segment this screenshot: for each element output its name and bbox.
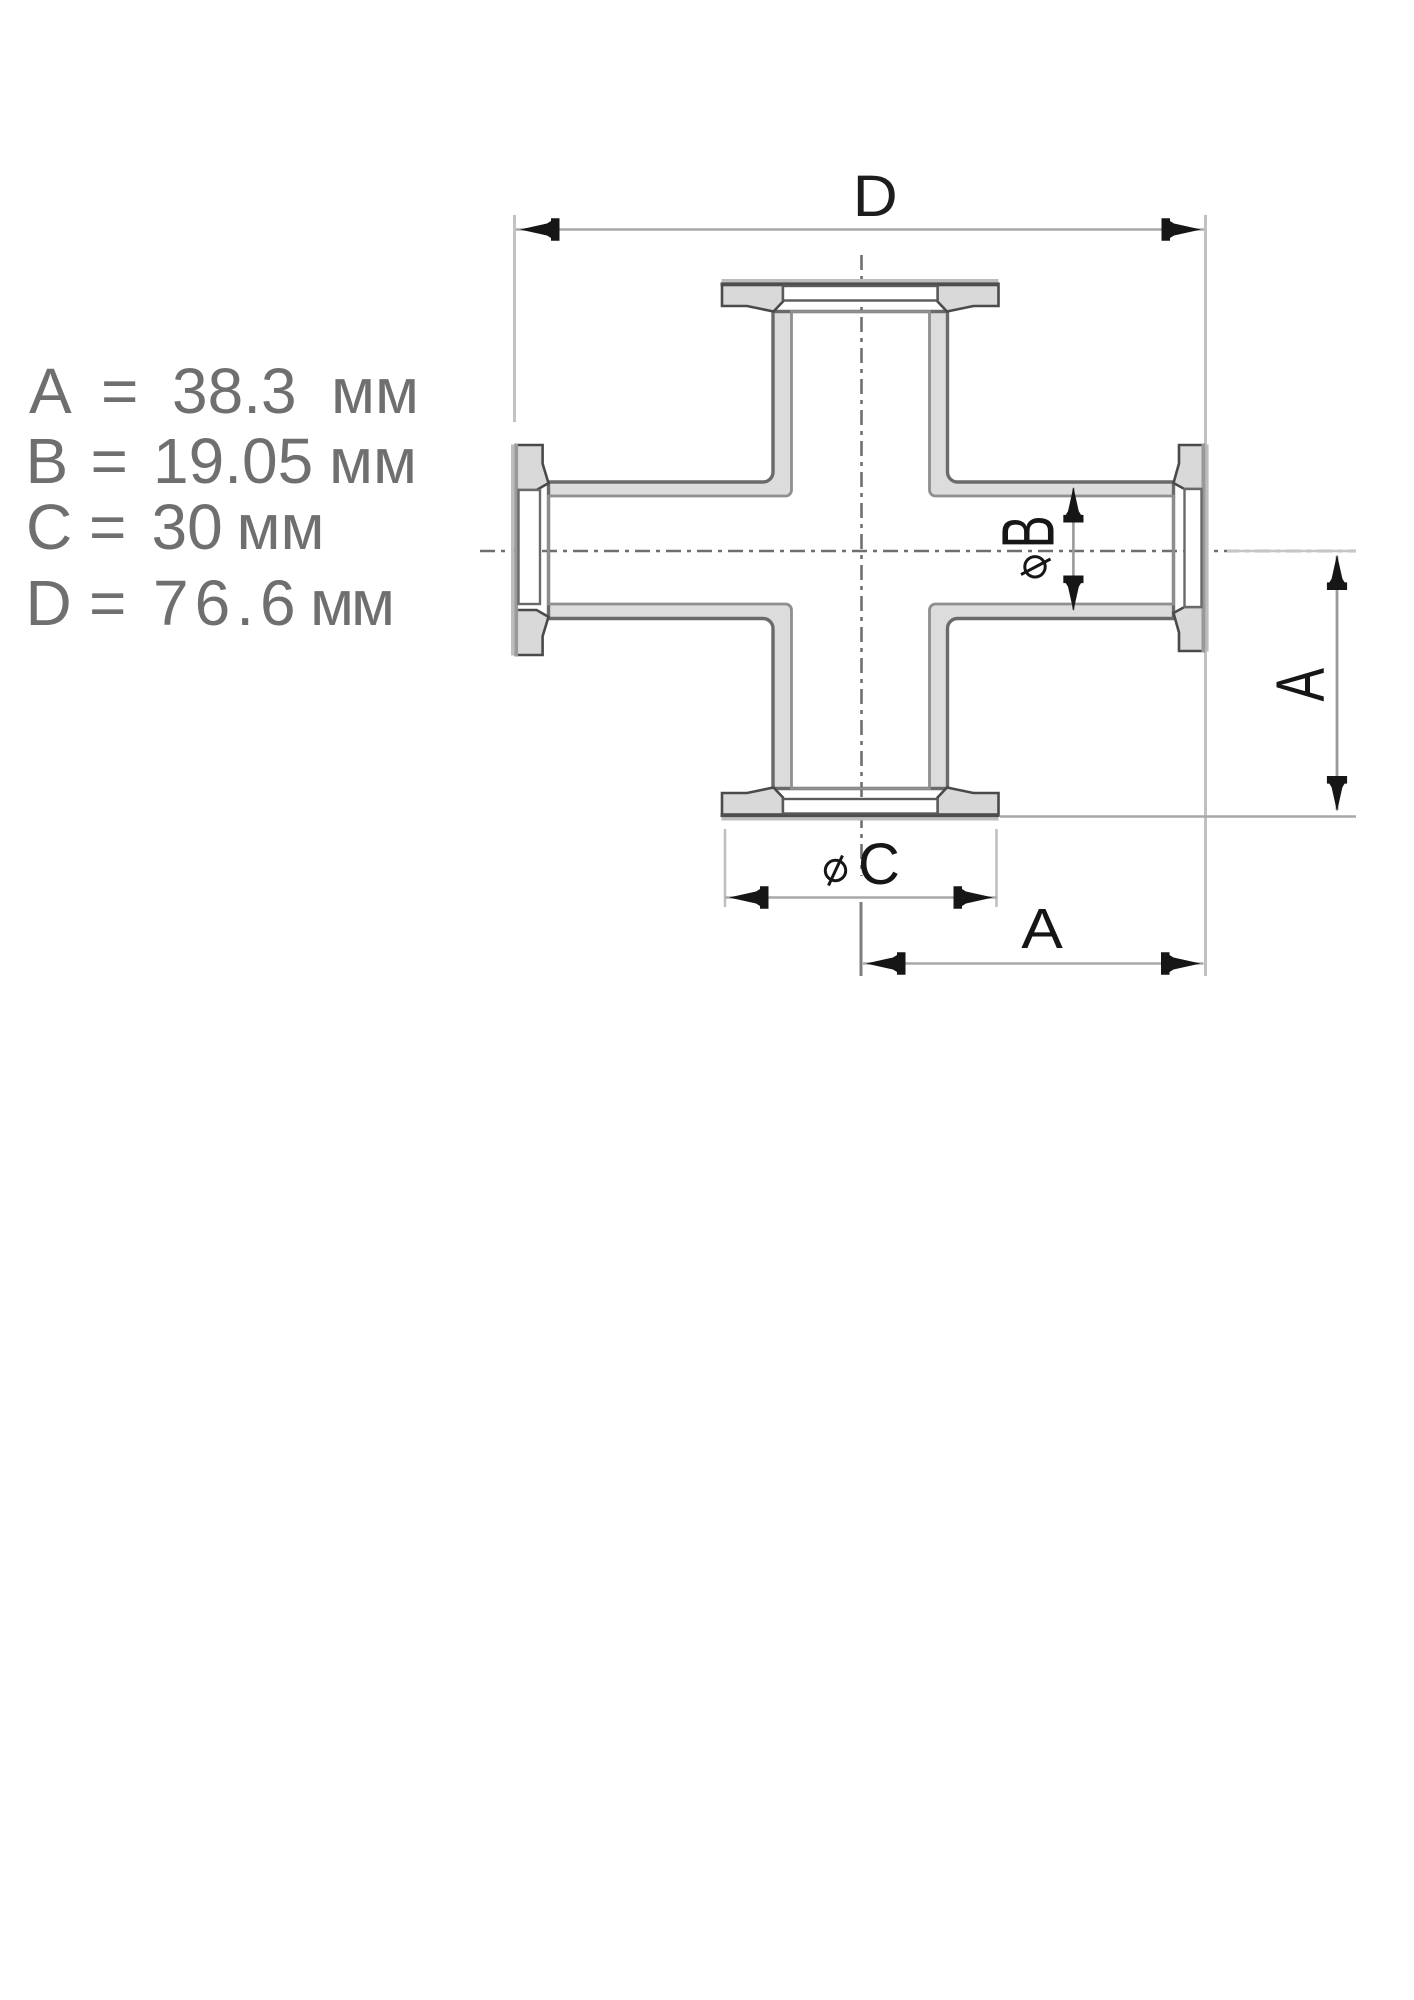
top flange dark face line: [721, 282, 1000, 286]
svg-text:A: A: [1021, 896, 1063, 960]
svg-text:=: =: [89, 491, 126, 563]
C right arrow: [954, 886, 994, 908]
right flange bottom lug: [1174, 607, 1204, 651]
A bottom right arrow: [1161, 952, 1201, 974]
left flange bottom lug: [516, 610, 549, 655]
ext line A-bottom left (center): [860, 902, 863, 976]
ext line A-right bottom / bottom flange face extension: [1000, 815, 1356, 817]
A bottom dimension line: [863, 962, 1204, 964]
left flange top lug: [516, 445, 549, 490]
svg-text:A: A: [1262, 668, 1338, 702]
bottom flange right lug: [938, 788, 999, 816]
A right bottom arrow: [1327, 776, 1347, 812]
A right top arrow: [1327, 555, 1347, 591]
svg-text:B: B: [26, 425, 69, 497]
outer contour: [549, 312, 1174, 789]
right flange sealing recess: [1185, 489, 1202, 607]
svg-text:=: =: [101, 355, 138, 427]
D right arrow: [1162, 218, 1202, 240]
svg-text:38.3: 38.3: [172, 355, 297, 427]
svg-text:мм: мм: [331, 355, 419, 427]
svg-text:=: =: [89, 567, 126, 639]
svg-text:30: 30: [152, 491, 223, 563]
ext line C left: [724, 829, 727, 907]
vertical centerline: [860, 255, 863, 876]
left flange sealing recess: [519, 490, 541, 604]
ext line C right: [995, 829, 998, 907]
B diameter symbol (rotated): [1021, 557, 1051, 577]
D dimension line: [516, 228, 1204, 230]
A bottom left arrow: [866, 952, 906, 974]
top flange sealing recess: [783, 286, 938, 301]
ext line A-right top (over centerline): [1227, 550, 1356, 552]
B dimension line: [1072, 488, 1075, 610]
ext line D/A right (runs behind right flange face): [1204, 215, 1207, 976]
svg-text:D: D: [26, 567, 72, 639]
C left arrow: [729, 886, 769, 908]
svg-text:D: D: [853, 163, 898, 229]
svg-text:C: C: [26, 491, 72, 563]
D left arrow: [520, 218, 560, 240]
ext line D left: [513, 215, 516, 422]
svg-text:19.05: 19.05: [153, 425, 313, 497]
right flange dark face line: [1202, 444, 1206, 653]
svg-text:A: A: [29, 355, 72, 427]
C dimension line: [725, 896, 997, 898]
left flange light face edge: [511, 445, 514, 656]
svg-text:мм: мм: [310, 567, 392, 639]
bottom flange sealing recess: [783, 799, 938, 814]
bore contour: [549, 312, 1174, 789]
B top arrow: [1063, 487, 1083, 523]
svg-text:мм: мм: [329, 425, 417, 497]
wall fill between outer and bore contours: [549, 312, 1174, 789]
bottom flange light face edge: [722, 817, 999, 821]
C label: [825, 856, 845, 886]
svg-text:C: C: [858, 832, 900, 897]
B bottom arrow: [1063, 575, 1083, 611]
top flange right lug: [938, 284, 999, 312]
bottom flange dark face line: [721, 813, 1000, 817]
svg-text:=: =: [91, 425, 128, 497]
right flange top lug: [1174, 445, 1204, 489]
top flange light face edge: [722, 279, 999, 283]
svg-text:мм: мм: [237, 491, 325, 563]
left flange dark face line: [514, 444, 518, 657]
right flange light face edge: [1205, 445, 1208, 652]
A right dimension line: [1336, 556, 1339, 810]
svg-text:76.6: 76.6: [153, 567, 302, 639]
horizontal centerline: [480, 550, 1356, 553]
top flange left lug: [722, 284, 783, 312]
bottom flange left lug: [722, 788, 783, 816]
svg-text:B: B: [988, 515, 1070, 548]
